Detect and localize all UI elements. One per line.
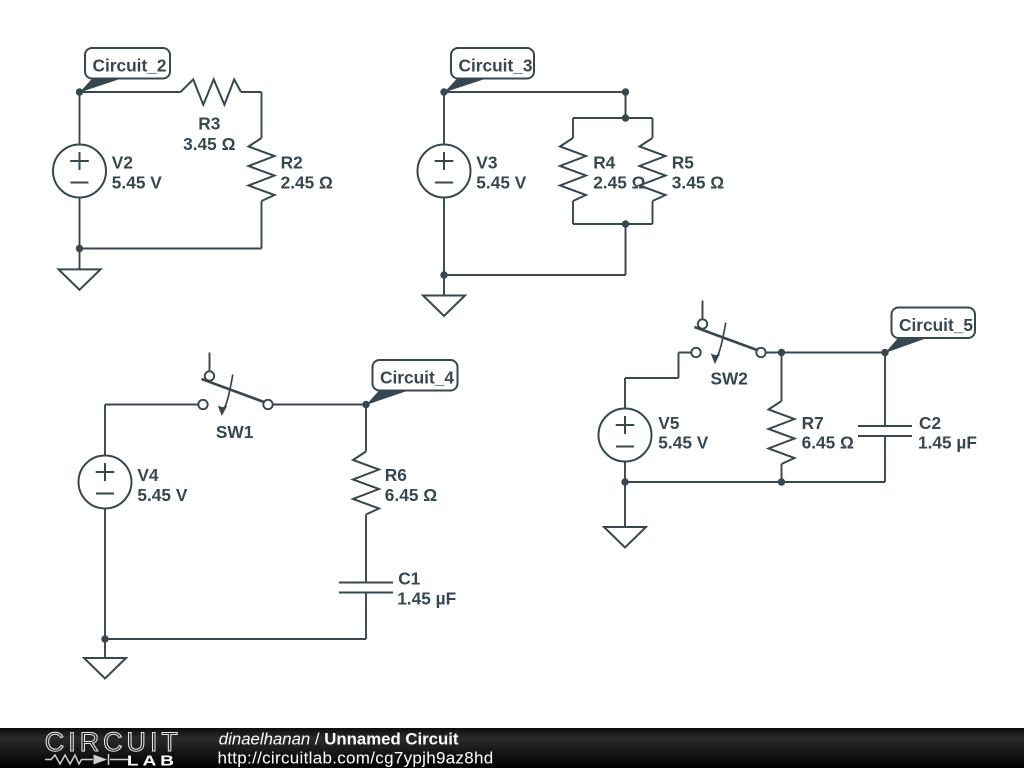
- svg-text:LAB: LAB: [127, 751, 178, 768]
- svg-text:Circuit_4: Circuit_4: [380, 368, 454, 388]
- svg-text:6.45 Ω: 6.45 Ω: [802, 433, 854, 453]
- svg-text:5.45 V: 5.45 V: [476, 172, 526, 192]
- svg-text:Circuit_2: Circuit_2: [93, 56, 167, 76]
- svg-text:SW1: SW1: [216, 422, 254, 442]
- svg-text:http://circuitlab.com/cg7ypjh9: http://circuitlab.com/cg7ypjh9az8hd: [218, 749, 494, 768]
- svg-text:R7: R7: [802, 413, 824, 433]
- svg-text:SW2: SW2: [710, 369, 747, 389]
- svg-text:V2: V2: [112, 153, 133, 173]
- svg-text:R6: R6: [385, 465, 407, 485]
- svg-text:Circuit_5: Circuit_5: [899, 315, 973, 335]
- svg-text:6.45 Ω: 6.45 Ω: [385, 485, 437, 505]
- svg-text:Circuit_3: Circuit_3: [459, 56, 533, 76]
- svg-text:C2: C2: [919, 413, 941, 433]
- svg-text:2.45 Ω: 2.45 Ω: [593, 172, 645, 192]
- svg-text:2.45 Ω: 2.45 Ω: [281, 172, 333, 192]
- svg-text:5.45 V: 5.45 V: [658, 433, 708, 453]
- svg-text:dinaelhanan / Unnamed Circuit: dinaelhanan / Unnamed Circuit: [219, 729, 459, 748]
- svg-text:R2: R2: [281, 152, 303, 172]
- svg-text:5.45 V: 5.45 V: [137, 485, 187, 505]
- svg-text:3.45 Ω: 3.45 Ω: [183, 134, 235, 154]
- svg-text:1.45 µF: 1.45 µF: [918, 433, 977, 453]
- svg-text:1.45 µF: 1.45 µF: [397, 589, 456, 609]
- svg-text:R4: R4: [593, 152, 615, 172]
- svg-text:R5: R5: [672, 152, 694, 172]
- svg-text:R3: R3: [198, 114, 220, 134]
- svg-text:3.45 Ω: 3.45 Ω: [672, 172, 724, 192]
- svg-text:5.45 V: 5.45 V: [112, 172, 162, 192]
- svg-text:V4: V4: [137, 465, 159, 485]
- svg-text:V5: V5: [658, 413, 680, 433]
- svg-text:C1: C1: [398, 569, 420, 589]
- svg-text:V3: V3: [476, 153, 497, 173]
